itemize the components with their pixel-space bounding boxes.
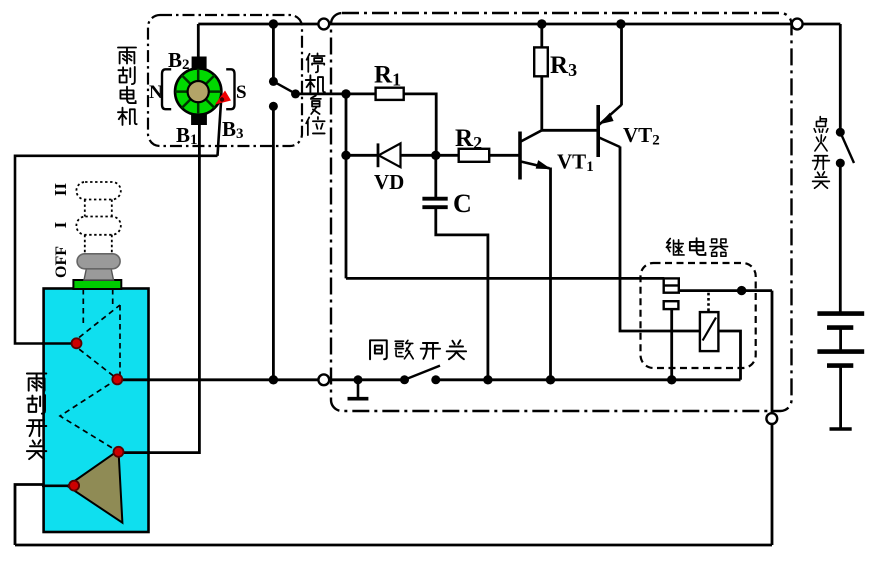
wire: reset lower contact down to intermittent line xyxy=(272,106,275,380)
wiper switch mounting collar (green) xyxy=(73,280,121,289)
transistor VT2 collector stroke xyxy=(599,138,620,148)
transistor VT1 collector stroke xyxy=(521,130,542,141)
relay contact upper (fixed+moving) xyxy=(664,278,679,292)
wire: C bottom lead, jog right and down to intermittent line xyxy=(436,209,488,380)
node: junction C branch / intermittent line xyxy=(483,375,492,384)
svg-text:C: C xyxy=(453,189,472,218)
capacitor C top plate xyxy=(422,197,447,201)
wiper motor enclosure (dash-dot rounded box) xyxy=(148,15,302,146)
node: junction VD left xyxy=(341,151,350,160)
wire: VT2 collector down to relay coil xyxy=(620,147,700,332)
svg-text:II: II xyxy=(51,183,70,197)
node: ignition switch lower contact xyxy=(836,159,845,168)
wire: branch x346 down to relay feed line xyxy=(345,94,348,279)
brush B2 (top) xyxy=(192,57,207,69)
wire: B2 brush to top rail xyxy=(197,24,200,58)
wire: R1 right, corner down to VD/R2 node xyxy=(404,94,437,155)
wire: R3 top lead to rail xyxy=(540,24,543,47)
node: junction top rail / VT2 emitter xyxy=(616,19,625,28)
battery GB plate long 2 xyxy=(817,349,864,354)
resistor R2 xyxy=(459,149,490,162)
wire: ignition feed down xyxy=(839,24,842,132)
label 间歇开关 (intermittent switch) xyxy=(370,340,466,359)
motor M armature core xyxy=(188,81,209,102)
label 雨刮开关 (wiper switch) xyxy=(27,374,46,460)
node: junction VD/R2/C xyxy=(431,151,440,160)
transistor VT1 emitter stroke with arrow xyxy=(521,162,550,169)
wire: intermittent line (switch wiper line) xyxy=(118,378,741,381)
ground (chassis) xyxy=(357,380,360,397)
node: ground junction xyxy=(354,375,363,384)
svg-text:VD: VD xyxy=(374,170,404,194)
battery GB plate long 1 xyxy=(817,311,864,316)
node: connector circle left (boundary bushing) xyxy=(318,19,329,30)
node: junction VT1 emitter / intermittent line xyxy=(546,375,555,384)
switch blade 停机复位 (park reset) xyxy=(273,81,296,94)
motor M rotor outer xyxy=(175,68,221,114)
wire: contact 1 stub (over box) xyxy=(42,342,77,345)
resistor R3 xyxy=(534,47,548,76)
wire: C top lead xyxy=(434,155,437,197)
wire: VD anode side xyxy=(346,154,378,157)
resistor R1 xyxy=(376,88,404,100)
wiper switch lever stem (grey) xyxy=(84,268,114,280)
wiper switch knob OFF position (grey) xyxy=(77,254,120,269)
node: reset switch upper contact xyxy=(269,77,278,86)
transistor VT1 base bar xyxy=(518,132,522,180)
wire: relay contact output xyxy=(679,289,772,292)
knob travel dotted guides xyxy=(85,200,112,254)
relay contact lower xyxy=(664,301,679,309)
node: junction top rail / R3 xyxy=(537,19,546,28)
wire: reset output to R1 xyxy=(296,93,376,96)
node: connector circle intermittent (boundary bushing) xyxy=(318,374,329,385)
brush B3 marker (red) xyxy=(215,91,231,105)
switch cam dashed triangle xyxy=(72,305,120,379)
switch cam dashed chevron xyxy=(60,379,120,453)
wire: B3 brush down, left, and down to switch contact 1 xyxy=(15,102,221,344)
node: junction R1 left / x346 branch xyxy=(341,89,350,98)
battery terminal end bar xyxy=(830,427,852,430)
transistor VT2 emitter stroke with arrow (points into base) xyxy=(599,105,622,125)
node: ignition switch upper contact xyxy=(836,128,845,137)
switch blade 间歇开关 (intermittent switch) xyxy=(405,366,441,380)
control unit boundary (dash-dot rounded box) xyxy=(331,13,792,411)
wire: VT1 emitter down to intermittent line xyxy=(549,168,552,380)
wire: R3 bottom lead xyxy=(540,76,543,130)
contact 2 (red) xyxy=(112,374,122,384)
pole S bracket xyxy=(226,69,234,109)
node: junction top rail / reset switch xyxy=(269,19,278,28)
node: connector circle right (boundary bushing) xyxy=(792,19,803,30)
wire: contact output down to bottom rail xyxy=(771,291,774,545)
node: junction contact output xyxy=(737,286,746,295)
label 停机复位 (park reset) xyxy=(306,53,325,135)
relay coil xyxy=(700,312,719,351)
contact 4 wiper arm (red) xyxy=(69,481,79,491)
wire: VT1 collector to VT2 base xyxy=(542,129,598,132)
node: intermittent switch left contact xyxy=(400,375,409,384)
wire: contact 3 stub (over box) xyxy=(119,451,151,454)
wire: battery negative down xyxy=(839,367,842,428)
bottom rail wire xyxy=(15,544,772,547)
pole N bracket xyxy=(162,69,171,109)
motor M rotor spokes xyxy=(175,68,221,114)
svg-text:S: S xyxy=(236,82,247,103)
contact 1 (red) xyxy=(72,338,82,348)
svg-text:OFF: OFF xyxy=(53,246,70,278)
wire: B1 brush down and left to switch contact 3 xyxy=(121,125,199,453)
label 继电器 (relay) xyxy=(666,238,727,256)
wire: contact 2 stub (over box) xyxy=(117,378,150,381)
diode VD cathode bar xyxy=(377,143,380,167)
svg-text:N: N xyxy=(149,82,163,103)
label 点火开关 (ignition switch) xyxy=(813,117,830,189)
relay mechanical link (dotted) xyxy=(707,293,710,312)
battery GB inter-cell stub xyxy=(839,329,842,350)
node: junction relay contact / intermittent line xyxy=(667,375,676,384)
node: junction reset-lower / intermittent line xyxy=(269,375,278,384)
relay enclosure (dashed rounded box) xyxy=(641,263,756,368)
node: reset switch output contact xyxy=(291,89,300,98)
wiper switch body (cyan box) xyxy=(44,289,149,533)
wire: VT2 emitter up to rail xyxy=(620,24,623,105)
label 雨刮电机 (wiper motor) xyxy=(118,48,137,125)
battery GB plate short 1 xyxy=(827,325,853,330)
wire: R2 to VT1 base xyxy=(489,154,518,157)
switch cam dashed guides (upper) xyxy=(83,289,112,325)
brush B1 (bottom) xyxy=(191,114,207,125)
wire: VD to R2 xyxy=(401,154,459,157)
wire: relay feed line (VD branch to relay contact) xyxy=(346,277,664,280)
node: intermittent switch right contact xyxy=(431,375,440,384)
transistor VT2 base bar xyxy=(596,105,600,157)
diode VD triangle xyxy=(379,143,401,167)
knob ghost position I (dotted) xyxy=(76,217,120,235)
capacitor C bottom plate xyxy=(422,205,447,209)
contact 3 (red) xyxy=(114,447,124,457)
switch blade 点火开关 (ignition switch) xyxy=(840,132,854,163)
node: reset switch lower contact xyxy=(269,102,278,111)
wire: bottom rail up to wiper arm contact xyxy=(15,485,70,546)
svg-text:I: I xyxy=(51,221,70,228)
wire: reset switch upper feed xyxy=(272,24,275,81)
battery GB plate short 2 xyxy=(827,363,853,368)
node: connector circle bottom (boundary bushing) xyxy=(766,413,777,424)
wire: ignition switch to battery xyxy=(839,163,842,311)
wiper arm (solid triangle) xyxy=(67,450,122,522)
knob ghost position II (dotted) xyxy=(76,182,120,200)
wire: coil right lead to return xyxy=(718,331,740,380)
wire: top rail B2 to ignition branch xyxy=(198,23,840,26)
wire: contact 4 stub (over box) xyxy=(42,484,74,487)
wire: relay lower contact to intermittent line xyxy=(670,309,673,380)
